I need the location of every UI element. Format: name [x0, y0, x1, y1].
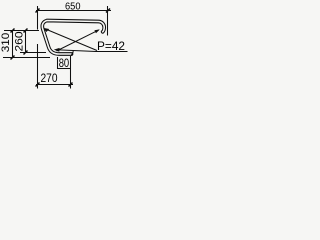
- dim 270 : left extension line: [37, 44, 39, 89]
- dim 310 : bottom extension line: [3, 57, 50, 59]
- dim 650 : dimension line: [36, 10, 111, 12]
- left dims shared top extension line: [4, 30, 39, 32]
- dim 270 : right extension line: [70, 56, 72, 89]
- dim 310 : bottom tick: [11, 56, 15, 60]
- dim 80 : left extension line: [57, 57, 59, 69]
- dim 650 : right extension line: [107, 6, 109, 36]
- dim 270 : dimension line: [36, 84, 73, 86]
- svg-text:310: 310: [0, 33, 12, 53]
- dim 270 : right tick: [69, 83, 73, 87]
- svg-text:80: 80: [59, 56, 70, 70]
- dim 270 : left tick: [36, 83, 40, 87]
- dim 650 : left tick: [36, 9, 40, 13]
- leader to top-left bend with arrow: [46, 29, 98, 51]
- dim 260 : top tick: [24, 29, 28, 33]
- dim 260 : bottom extension line: [20, 52, 46, 54]
- dim 310 : top tick: [11, 29, 15, 33]
- dim 310 : dimension line: [12, 31, 14, 58]
- dim 260 : dimension line: [25, 31, 27, 53]
- dim 650 : left extension line: [37, 6, 39, 30]
- svg-text:270: 270: [41, 71, 58, 85]
- svg-text:260: 260: [13, 32, 25, 52]
- dim 260 : bottom tick: [24, 51, 28, 55]
- leader to right curl end with arrow: [57, 30, 99, 51]
- dim 650 : right tick: [106, 9, 110, 13]
- P=42 label shelf: [96, 51, 128, 53]
- svg-text:P=42: P=42: [97, 39, 125, 53]
- dim 80 : bottom line: [58, 68, 71, 70]
- sheet end cut at bottom right: [71, 51, 73, 56]
- profile sheet outline (double line via white core): [42, 21, 104, 55]
- leader to bottom-left bend with arrow: [56, 50, 96, 52]
- svg-text:650: 650: [65, 1, 81, 12]
